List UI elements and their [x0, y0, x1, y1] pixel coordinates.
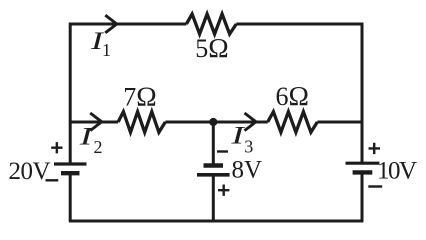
polarity plus sign of 10V battery: [369, 143, 381, 154]
resistor 7-ohm zigzag (middle branch left): [118, 112, 165, 133]
battery 10V: short negative plate: [353, 170, 373, 174]
wire bottom: bottom rail connecting all three branches: [69, 220, 364, 223]
label I3 current (after node): [230, 122, 253, 157]
wire top-left: left vertical rail up and top wire to 5-ohm resistor: [70, 24, 186, 164]
polarity minus sign of 10V battery: [368, 185, 382, 187]
wire: middle vertical below 8V battery: [212, 174, 215, 221]
wire: right rail below 10V battery: [361, 172, 364, 221]
polarity minus sign of 20V battery: [46, 179, 59, 181]
wire middle-right: from 6-ohm resistor to right rail: [317, 121, 362, 124]
wire: middle vertical from node down to 8V battery: [212, 122, 215, 164]
svg-text:5Ω: 5Ω: [195, 32, 228, 63]
wire middle-center: from 7-ohm through node to 6-ohm resistor: [165, 121, 267, 124]
current arrow I2 head (middle branch, pointing right): [90, 113, 102, 131]
label I1 current (top branch): [90, 27, 111, 60]
battery 8V: long positive plate (bottom): [197, 173, 230, 177]
wire: left rail below 20V battery: [69, 173, 72, 221]
label I2 current (middle branch): [79, 122, 103, 157]
resistor 5-ohm zigzag (top branch): [186, 14, 236, 34]
svg-text:3: 3: [244, 137, 253, 157]
svg-text:I: I: [230, 122, 245, 149]
current arrow I3 head (after node, pointing right): [245, 113, 257, 131]
svg-text:8V: 8V: [232, 157, 263, 184]
polarity minus sign of 8V battery: [217, 150, 228, 152]
polarity plus sign of 8V battery: [218, 185, 229, 196]
svg-text:10V: 10V: [377, 158, 417, 185]
node: junction dot joining 7-ohm, 6-ohm and 8V branch: [209, 118, 217, 126]
battery 8V: short negative plate (top): [204, 163, 224, 167]
wire top-right: top wire from resistor to right rail down to 10V battery: [236, 24, 362, 163]
battery 20V: long positive plate: [54, 162, 87, 165]
current arrow I1 head (top branch, pointing right): [105, 15, 117, 33]
svg-text:I: I: [79, 122, 94, 149]
battery 20V: short negative plate: [61, 171, 80, 175]
resistor 6-ohm zigzag (middle branch right): [268, 112, 318, 133]
battery 10V: long positive plate: [346, 162, 380, 165]
svg-text:1: 1: [102, 40, 111, 60]
svg-text:20V: 20V: [9, 158, 51, 185]
svg-text:2: 2: [94, 137, 103, 157]
wire middle-left: from left rail to 7-ohm resistor: [70, 121, 118, 124]
svg-text:6Ω: 6Ω: [276, 80, 309, 111]
polarity plus sign of 20V battery: [51, 142, 62, 153]
svg-text:7Ω: 7Ω: [123, 80, 156, 111]
